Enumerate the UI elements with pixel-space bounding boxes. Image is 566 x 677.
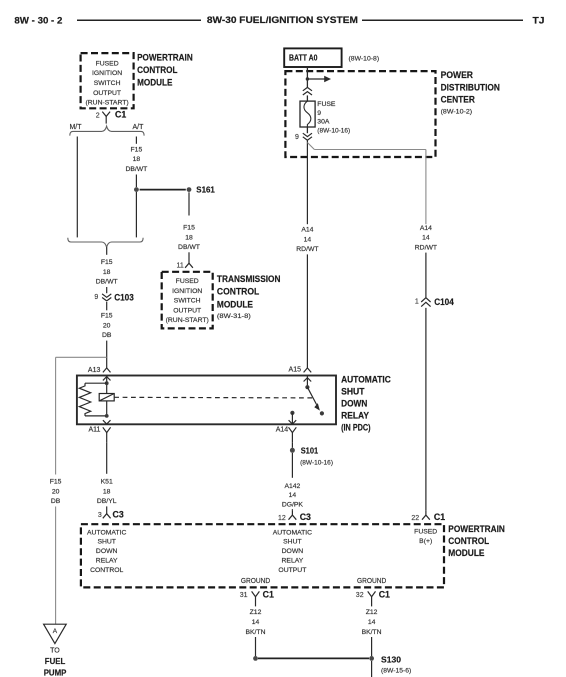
svg-text:IGNITION: IGNITION [92, 70, 122, 77]
svg-text:A13: A13 [88, 367, 101, 374]
svg-text:MODULE: MODULE [137, 78, 172, 88]
svg-text:F15: F15 [131, 146, 143, 153]
svg-text:DB/YL: DB/YL [97, 498, 117, 505]
svg-text:CONTROL: CONTROL [448, 536, 489, 546]
svg-text:12: 12 [278, 515, 286, 522]
svg-text:C1: C1 [263, 590, 274, 600]
svg-text:RD/WT: RD/WT [296, 246, 318, 253]
svg-text:F15: F15 [183, 225, 195, 232]
svg-text:DISTRIBUTION: DISTRIBUTION [441, 82, 501, 92]
svg-text:A14: A14 [301, 227, 313, 234]
svg-text:8W-30 FUEL/IGNITION SYSTEM: 8W-30 FUEL/IGNITION SYSTEM [207, 15, 358, 25]
svg-text:14: 14 [304, 236, 312, 243]
svg-text:AUTOMATIC: AUTOMATIC [341, 375, 391, 385]
svg-text:(8W-10-16): (8W-10-16) [300, 459, 333, 466]
svg-text:20: 20 [103, 322, 111, 329]
svg-text:BK/TN: BK/TN [362, 629, 382, 636]
svg-text:Z12: Z12 [250, 609, 262, 616]
svg-text:CONTROL: CONTROL [90, 567, 123, 574]
svg-text:C104: C104 [434, 297, 454, 307]
svg-text:(8W-10-2): (8W-10-2) [441, 109, 473, 116]
svg-text:(8W-15-6): (8W-15-6) [381, 668, 411, 675]
svg-text:F15: F15 [101, 313, 113, 320]
svg-text:FUSED: FUSED [414, 529, 437, 536]
svg-text:CONTROL: CONTROL [217, 287, 260, 297]
svg-text:C103: C103 [114, 293, 134, 303]
svg-text:A14: A14 [420, 225, 432, 232]
svg-text:DOWN: DOWN [282, 548, 304, 555]
svg-text:A/T: A/T [133, 124, 145, 131]
svg-text:DB: DB [51, 498, 61, 505]
svg-text:M/T: M/T [69, 124, 82, 131]
svg-text:POWER: POWER [441, 70, 474, 80]
svg-text:(RUN-START): (RUN-START) [86, 100, 129, 107]
svg-text:MODULE: MODULE [448, 548, 484, 558]
svg-text:SHUT: SHUT [283, 539, 302, 546]
svg-text:SWITCH: SWITCH [94, 80, 121, 87]
svg-text:MODULE: MODULE [217, 299, 253, 309]
svg-text:BATT A0: BATT A0 [289, 52, 318, 62]
svg-text:DB/WT: DB/WT [96, 279, 118, 286]
svg-text:18: 18 [103, 269, 111, 276]
svg-text:DB/WT: DB/WT [178, 244, 200, 251]
svg-text:3: 3 [98, 512, 102, 519]
svg-text:SHUT: SHUT [97, 539, 116, 546]
svg-text:SHUT: SHUT [341, 387, 365, 397]
svg-text:POWERTRAIN: POWERTRAIN [137, 53, 193, 63]
svg-text:C1: C1 [379, 590, 390, 600]
svg-text:2: 2 [96, 112, 100, 119]
svg-text:GROUND: GROUND [357, 576, 386, 585]
svg-text:9: 9 [94, 294, 98, 301]
svg-text:DB/WT: DB/WT [125, 166, 147, 173]
svg-text:14: 14 [422, 235, 430, 242]
svg-text:A11: A11 [88, 427, 100, 434]
svg-text:18: 18 [185, 234, 193, 241]
svg-text:DOWN: DOWN [341, 399, 367, 409]
svg-text:(8W-10-8): (8W-10-8) [349, 55, 380, 62]
svg-text:11: 11 [177, 262, 184, 269]
svg-text:RELAY: RELAY [341, 411, 370, 421]
svg-text:DG/PK: DG/PK [282, 501, 304, 508]
svg-text:C3: C3 [300, 512, 311, 522]
svg-text:A142: A142 [284, 483, 300, 490]
svg-text:(8W-10-16): (8W-10-16) [317, 127, 350, 134]
svg-text:A: A [53, 628, 58, 635]
svg-text:32: 32 [356, 592, 364, 599]
svg-text:8W - 30 - 2: 8W - 30 - 2 [14, 15, 62, 26]
svg-text:RELAY: RELAY [96, 557, 118, 564]
svg-text:31: 31 [240, 592, 248, 599]
svg-text:20: 20 [52, 488, 60, 495]
svg-text:FUSED: FUSED [96, 60, 119, 67]
svg-text:TRANSMISSION: TRANSMISSION [217, 274, 281, 284]
svg-text:14: 14 [252, 619, 260, 626]
svg-text:Z12: Z12 [366, 609, 378, 616]
svg-text:PUMP: PUMP [44, 667, 67, 677]
svg-text:AUTOMATIC: AUTOMATIC [87, 529, 126, 536]
svg-text:(8W-31-8): (8W-31-8) [217, 313, 251, 320]
svg-text:RELAY: RELAY [282, 557, 304, 564]
svg-text:C1: C1 [434, 512, 445, 522]
svg-text:AUTOMATIC: AUTOMATIC [273, 529, 312, 536]
svg-text:A14: A14 [276, 427, 289, 434]
svg-text:22: 22 [411, 515, 419, 522]
svg-text:IGNITION: IGNITION [172, 288, 202, 295]
svg-text:18: 18 [133, 156, 141, 163]
svg-text:DOWN: DOWN [96, 548, 118, 555]
svg-text:S130: S130 [381, 655, 401, 665]
svg-text:S101: S101 [301, 445, 319, 455]
svg-text:FUSE: FUSE [317, 101, 336, 108]
svg-text:TO: TO [50, 648, 60, 655]
svg-text:A15: A15 [289, 367, 302, 374]
svg-text:1: 1 [415, 299, 419, 306]
svg-text:18: 18 [103, 488, 111, 495]
svg-text:FUEL: FUEL [45, 656, 66, 666]
svg-text:FUSED: FUSED [176, 278, 199, 285]
svg-text:OUTPUT: OUTPUT [93, 90, 121, 97]
svg-text:POWERTRAIN: POWERTRAIN [448, 524, 505, 534]
svg-text:(RUN-START): (RUN-START) [166, 317, 209, 324]
svg-text:14: 14 [289, 492, 297, 499]
svg-text:OUTPUT: OUTPUT [278, 567, 306, 574]
svg-text:SWITCH: SWITCH [174, 298, 201, 305]
svg-text:C3: C3 [113, 509, 124, 519]
svg-text:OUTPUT: OUTPUT [173, 307, 201, 314]
svg-text:F15: F15 [50, 479, 62, 486]
svg-text:K51: K51 [101, 479, 113, 486]
svg-text:CONTROL: CONTROL [137, 65, 178, 75]
svg-text:B(+): B(+) [419, 538, 432, 545]
svg-text:GROUND: GROUND [241, 576, 270, 585]
svg-text:30A: 30A [317, 119, 330, 126]
svg-text:TJ: TJ [533, 15, 545, 26]
svg-text:BK/TN: BK/TN [245, 629, 265, 636]
svg-text:(IN PDC): (IN PDC) [341, 423, 371, 433]
svg-text:CENTER: CENTER [441, 94, 476, 104]
svg-text:S161: S161 [196, 185, 215, 195]
svg-text:14: 14 [368, 619, 376, 626]
svg-text:F15: F15 [101, 259, 113, 266]
svg-text:DB: DB [102, 332, 112, 339]
svg-text:C1: C1 [115, 109, 126, 119]
svg-text:9: 9 [295, 134, 299, 141]
svg-text:9: 9 [317, 110, 321, 117]
svg-text:RD/WT: RD/WT [415, 244, 437, 251]
